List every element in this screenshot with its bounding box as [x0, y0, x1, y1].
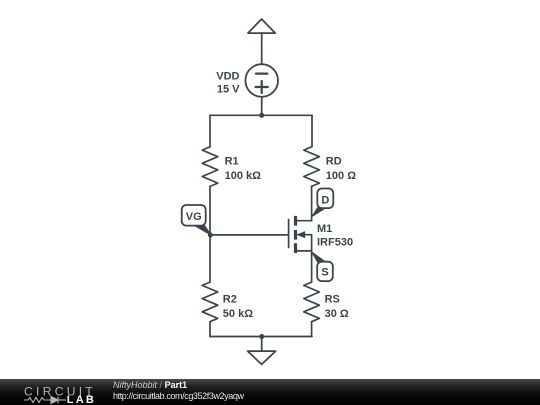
ground — [248, 337, 276, 365]
wire: RS to bottom bus — [311, 322, 313, 337]
label IRF530 — [317, 237, 353, 249]
svg-text:RD: RD — [326, 156, 342, 168]
svg-text:VDD: VDD — [216, 70, 239, 82]
svg-text:S: S — [321, 266, 328, 278]
svg-text:LAB: LAB — [67, 394, 96, 405]
svg-text:R1: R1 — [225, 156, 239, 168]
wire: gate wire VG to M1 gate — [210, 234, 288, 236]
svg-text:30 Ω: 30 Ω — [325, 308, 349, 320]
label S text — [321, 266, 328, 278]
resistor RD 100 — [304, 147, 320, 187]
svg-text:IRF530: IRF530 — [317, 237, 353, 249]
label 50 kOhm — [223, 308, 253, 320]
svg-text:D: D — [321, 195, 329, 207]
node D flag — [313, 189, 334, 216]
svg-text:15 V: 15 V — [217, 84, 240, 96]
logo word LAB — [67, 394, 96, 405]
wire: V1 bottom to top bus — [261, 97, 263, 116]
label D text — [321, 195, 329, 207]
svg-text:VG: VG — [186, 211, 202, 223]
logo word CIRCUIT — [24, 384, 96, 398]
svg-text:RS: RS — [325, 294, 340, 306]
logo resistor zigzag and diode — [24, 397, 66, 404]
wire: top bus to RD — [311, 115, 313, 147]
label 30 Ohm — [325, 308, 349, 320]
wire: VG node to R2 — [209, 235, 211, 282]
node S flag — [312, 253, 332, 281]
voltage source V1 VDD 15V — [245, 64, 278, 97]
label 100 Ohm — [326, 170, 356, 182]
wire: RD to M1 drain — [311, 186, 313, 220]
label RD — [326, 156, 342, 168]
label R2 — [223, 294, 237, 306]
label VG text — [186, 211, 202, 223]
footer bar — [0, 379, 540, 405]
label 100 kOhm — [225, 170, 262, 182]
node VG flag — [182, 205, 211, 235]
resistor RS 30 — [304, 282, 320, 322]
wire: top bus to R1 — [209, 115, 211, 147]
CircuitLab logo — [0, 379, 110, 405]
junction dot at bottom bus — [259, 334, 264, 339]
label M1 — [317, 223, 332, 235]
svg-text:R2: R2 — [223, 294, 237, 306]
footer title NiftyHobbit / Part1 — [113, 381, 187, 391]
label RS — [325, 294, 340, 306]
footer url — [113, 391, 244, 401]
svg-text:100 kΩ: 100 kΩ — [225, 170, 262, 182]
wire: power flag to V1 top — [261, 33, 263, 64]
svg-text:100 Ω: 100 Ω — [326, 170, 356, 182]
wire: R2 to bottom bus — [209, 322, 211, 337]
wire: R1 to VG node — [209, 186, 211, 235]
svg-text:50 kΩ: 50 kΩ — [223, 308, 253, 320]
power flag VDD arrow — [248, 19, 275, 33]
label VDD — [216, 70, 239, 82]
svg-text:M1: M1 — [317, 223, 332, 235]
wire: M1 source to RS — [311, 251, 313, 282]
wire: bottom bus — [210, 336, 312, 338]
transistor M1 IRF530 NMOS — [289, 216, 312, 253]
wire: top bus — [210, 114, 312, 116]
label R1 — [225, 156, 239, 168]
resistor R2 50k — [202, 282, 218, 322]
resistor R1 100k — [202, 147, 218, 187]
junction dot at top bus — [259, 113, 264, 118]
label 15 V — [217, 84, 240, 96]
node VG junction dot — [208, 233, 213, 238]
